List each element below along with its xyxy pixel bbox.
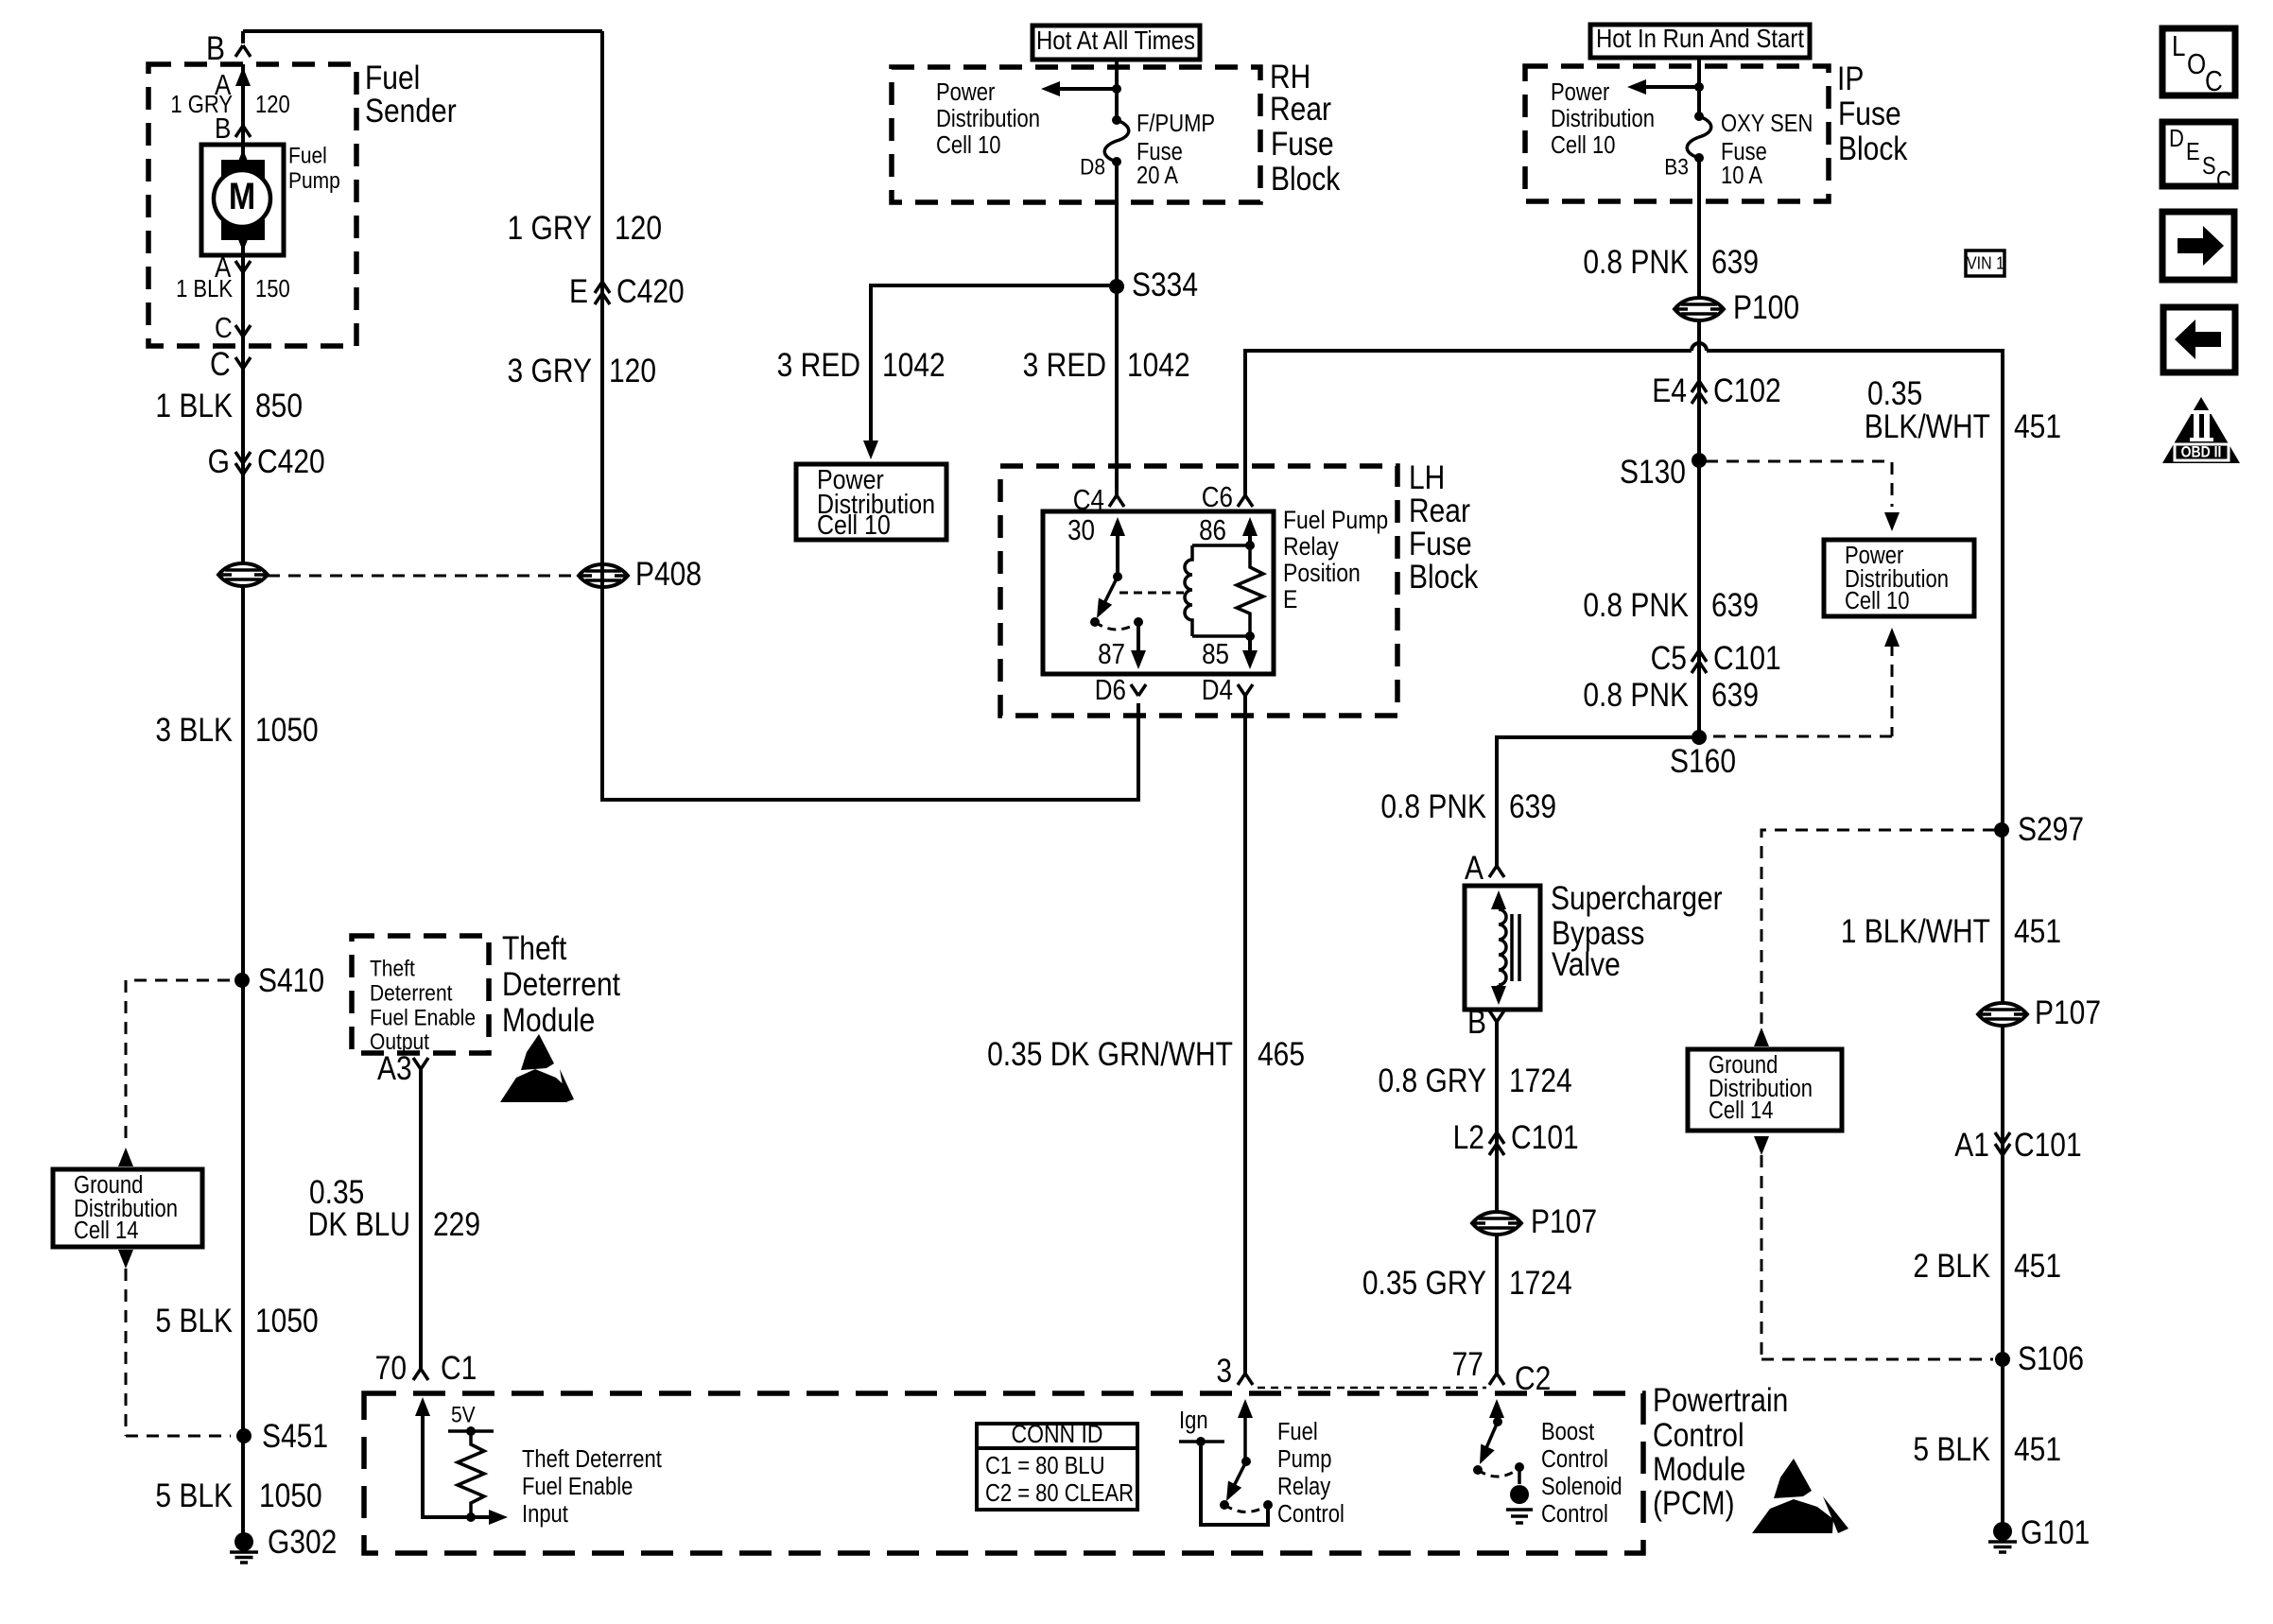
connector C5 C101 double chevron xyxy=(1692,650,1707,662)
svg-text:1042: 1042 xyxy=(882,347,946,384)
grommet P107 left xyxy=(1472,1212,1521,1235)
arrow into power distribution box xyxy=(863,441,878,459)
relay dashed actuator link xyxy=(1119,592,1184,595)
junction dot RH feed xyxy=(1112,84,1121,94)
svg-text:1050: 1050 xyxy=(255,712,319,749)
arrow down from box xyxy=(118,1250,133,1269)
fuse F/PUMP 20A xyxy=(1112,115,1121,125)
fuel pump relay box xyxy=(1043,511,1274,674)
dashed branch S410 to ground distribution xyxy=(126,980,230,1142)
RH rear fuse block dashed box xyxy=(892,67,1260,202)
dashed branch down to S106 xyxy=(1761,1155,1993,1359)
svg-text:Module: Module xyxy=(502,1002,595,1039)
svg-text:D6: D6 xyxy=(1095,674,1126,705)
connector E4 C102 double chevron xyxy=(1692,381,1707,392)
svg-text:1724: 1724 xyxy=(1509,1063,1572,1099)
connector B motor chevron xyxy=(235,126,251,137)
svg-text:A: A xyxy=(1465,850,1484,887)
svg-text:S334: S334 xyxy=(1132,267,1198,303)
svg-text:5 BLK: 5 BLK xyxy=(155,1477,233,1514)
svg-text:E: E xyxy=(1283,586,1297,614)
boost switch dashed arc xyxy=(1478,1468,1519,1477)
svg-text:Fuel: Fuel xyxy=(288,142,327,168)
svg-text:86: 86 xyxy=(1199,514,1226,545)
svg-text:B: B xyxy=(1467,1004,1486,1041)
ESD symbol PCM xyxy=(1774,1459,1812,1498)
svg-text:VIN 1: VIN 1 xyxy=(1967,252,2004,272)
svg-text:P107: P107 xyxy=(1531,1203,1597,1240)
ground G101 xyxy=(1988,1522,2017,1552)
power distribution arrow left RH xyxy=(1050,87,1117,91)
PCM dashed box xyxy=(364,1393,1643,1553)
wire from title into fuse xyxy=(1115,60,1119,120)
svg-text:Block: Block xyxy=(1271,161,1341,198)
svg-text:B: B xyxy=(206,30,225,67)
pin A arrow into sender xyxy=(235,67,251,86)
svg-text:CONN ID: CONN ID xyxy=(1011,1421,1102,1449)
dashed branch S297 to ground distribution right xyxy=(1761,830,1995,1024)
fuse OXY SEN 10A xyxy=(1694,112,1704,121)
wire S334 branch left and down xyxy=(871,285,1117,442)
wire hop over PNK wire xyxy=(1692,343,1707,351)
svg-text:Module: Module xyxy=(1653,1451,1745,1488)
svg-text:Cell 10: Cell 10 xyxy=(1845,588,1909,615)
relay pin 87 arrow down xyxy=(1136,622,1140,656)
svg-text:451: 451 xyxy=(2014,1431,2061,1468)
relay pin 30 arrow xyxy=(1110,517,1125,536)
5V supply bar xyxy=(448,1429,494,1433)
svg-text:G101: G101 xyxy=(2021,1514,2090,1551)
svg-text:Control: Control xyxy=(1541,1446,1608,1474)
svg-text:C6: C6 xyxy=(1202,481,1233,512)
svg-text:Cell 10: Cell 10 xyxy=(1551,132,1615,160)
OBD II icon xyxy=(2162,397,2240,463)
svg-text:0.8 PNK: 0.8 PNK xyxy=(1583,677,1689,714)
svg-text:Block: Block xyxy=(1409,559,1479,596)
supercharger bypass valve box xyxy=(1465,886,1540,1010)
relay pin 86 arrow xyxy=(1242,517,1258,536)
fuel pump motor M1 xyxy=(201,145,284,255)
svg-text:Hot At All Times: Hot At All Times xyxy=(1036,25,1195,55)
connector D6 chevron xyxy=(1131,684,1146,696)
svg-text:Fuse: Fuse xyxy=(1271,126,1334,163)
wire A3 down to C1 xyxy=(419,1069,423,1369)
svg-text:0.8 GRY: 0.8 GRY xyxy=(1379,1063,1486,1099)
wire B down to PCM C2 xyxy=(1495,1022,1499,1373)
left arrow icon box xyxy=(2163,307,2235,372)
grommet P107 right xyxy=(1978,1003,2027,1026)
connector C6 chevron xyxy=(1238,495,1253,507)
connector C chevron below box xyxy=(235,357,251,369)
dashed link to P408 xyxy=(268,575,579,578)
svg-text:639: 639 xyxy=(1711,677,1759,714)
svg-text:Fuse: Fuse xyxy=(1409,526,1472,562)
svg-text:Cell 14: Cell 14 xyxy=(74,1218,138,1245)
connector A1 C101 double chevron down xyxy=(1995,1132,2010,1144)
wire fuse to S334 to C4 xyxy=(1115,162,1119,495)
boost solenoid to ground xyxy=(1518,1467,1521,1484)
connector 70 C1 chevron xyxy=(413,1369,428,1380)
svg-text:C1: C1 xyxy=(441,1350,477,1387)
relay resistor xyxy=(1237,545,1263,636)
wire top horizontal B to right branch xyxy=(243,29,602,33)
splice S334 xyxy=(1109,279,1124,294)
connector A chevron xyxy=(1489,866,1504,877)
svg-text:0.35 GRY: 0.35 GRY xyxy=(1362,1265,1486,1302)
relay switch dashed arc xyxy=(1095,622,1138,630)
splice S160 xyxy=(1692,730,1707,745)
switch dashed arc xyxy=(1224,1505,1268,1512)
svg-text:120: 120 xyxy=(255,92,290,119)
wire fuse down to S160 xyxy=(1697,158,1701,737)
5V junction dot xyxy=(466,1426,476,1436)
ESD symbol theft module xyxy=(521,1034,554,1070)
svg-text:1050: 1050 xyxy=(259,1477,322,1514)
svg-text:639: 639 xyxy=(1509,788,1556,825)
svg-text:Power: Power xyxy=(936,79,995,107)
svg-text:120: 120 xyxy=(615,210,662,247)
svg-text:639: 639 xyxy=(1711,244,1759,281)
boost switch contact dot left xyxy=(1473,1465,1483,1475)
svg-text:Control: Control xyxy=(1277,1501,1345,1529)
svg-text:3: 3 xyxy=(1216,1353,1232,1390)
svg-text:Fuse: Fuse xyxy=(1838,95,1901,132)
svg-text:Position: Position xyxy=(1283,560,1361,588)
svg-text:OBD II: OBD II xyxy=(2181,443,2222,460)
svg-text:D: D xyxy=(2169,126,2184,153)
svg-text:(PCM): (PCM) xyxy=(1653,1485,1735,1522)
LOC icon box xyxy=(2162,28,2235,95)
svg-text:OXY SEN: OXY SEN xyxy=(1721,111,1813,138)
label VIN 1 box xyxy=(1966,251,2004,276)
svg-text:S130: S130 xyxy=(1620,454,1686,491)
svg-text:C: C xyxy=(2205,65,2223,96)
valve coil xyxy=(1499,909,1506,985)
splice S106 xyxy=(1995,1352,2010,1367)
svg-text:Rear: Rear xyxy=(1270,91,1331,128)
svg-text:451: 451 xyxy=(2014,1248,2061,1285)
svg-text:C2 = 80 CLEAR: C2 = 80 CLEAR xyxy=(985,1480,1134,1508)
svg-text:77: 77 xyxy=(1452,1346,1484,1383)
svg-text:C420: C420 xyxy=(616,273,685,310)
svg-text:Distribution: Distribution xyxy=(936,106,1040,133)
svg-text:Input: Input xyxy=(522,1501,568,1529)
svg-text:F/PUMP: F/PUMP xyxy=(1136,111,1215,138)
connector B top chevron xyxy=(235,45,251,57)
power distribution cell 10 box right xyxy=(1824,540,1974,616)
svg-text:Cell 10: Cell 10 xyxy=(936,132,1000,160)
wire from title into fuse xyxy=(1697,58,1701,116)
svg-text:229: 229 xyxy=(433,1206,480,1243)
theft deterrent input arrow xyxy=(415,1397,430,1416)
svg-text:C: C xyxy=(2216,167,2231,195)
title box Hot At All Times xyxy=(1032,26,1200,60)
svg-text:20 A: 20 A xyxy=(1136,163,1178,190)
svg-text:RH: RH xyxy=(1270,59,1310,95)
svg-text:Control: Control xyxy=(1541,1501,1608,1529)
svg-text:639: 639 xyxy=(1711,587,1759,624)
svg-text:C101: C101 xyxy=(1713,640,1781,677)
switch blade xyxy=(1230,1461,1246,1494)
power distribution cell 10 solid box left xyxy=(796,464,946,540)
svg-text:P100: P100 xyxy=(1733,289,1799,326)
splice S451 xyxy=(236,1428,252,1443)
svg-text:10 A: 10 A xyxy=(1721,163,1762,190)
svg-text:Powertrain: Powertrain xyxy=(1653,1382,1788,1419)
junction dot IP feed xyxy=(1694,82,1704,92)
svg-text:Theft Deterrent: Theft Deterrent xyxy=(522,1446,662,1474)
junction dot resistor bottom xyxy=(466,1512,476,1522)
svg-text:5 BLK: 5 BLK xyxy=(155,1303,233,1339)
svg-text:Power: Power xyxy=(1551,79,1609,107)
connector C4 chevron xyxy=(1109,495,1124,507)
svg-text:O: O xyxy=(2187,48,2206,79)
svg-text:E: E xyxy=(569,273,588,310)
svg-text:Cell 14: Cell 14 xyxy=(1709,1097,1773,1125)
title box Hot In Run And Start xyxy=(1590,25,1810,58)
valve plate bars xyxy=(1512,914,1519,981)
relay pin 85 arrow down xyxy=(1248,636,1252,656)
svg-text:0.8 PNK: 0.8 PNK xyxy=(1583,244,1689,281)
theft deterrent dashed box xyxy=(352,936,489,1053)
svg-text:Solenoid: Solenoid xyxy=(1541,1474,1622,1501)
connector G C420 double chevron xyxy=(235,452,251,463)
svg-text:Deterrent: Deterrent xyxy=(502,966,620,1003)
svg-text:D4: D4 xyxy=(1202,674,1233,705)
svg-text:B: B xyxy=(215,112,231,144)
boost switch contact dot right xyxy=(1515,1462,1524,1472)
svg-text:S297: S297 xyxy=(2018,811,2084,848)
CONN ID table xyxy=(977,1424,1137,1510)
svg-text:S160: S160 xyxy=(1670,743,1736,780)
svg-text:C420: C420 xyxy=(257,443,325,480)
ground G302 xyxy=(230,1532,258,1563)
svg-text:0.35 DK GRN/WHT: 0.35 DK GRN/WHT xyxy=(987,1036,1233,1073)
svg-text:A3: A3 xyxy=(377,1050,412,1087)
svg-text:E: E xyxy=(2186,139,2200,166)
svg-text:Fuel: Fuel xyxy=(1277,1419,1318,1446)
svg-text:Supercharger: Supercharger xyxy=(1551,880,1723,917)
svg-text:Boost: Boost xyxy=(1541,1419,1595,1446)
wire D4 down to PCM pin 3 xyxy=(1243,696,1247,1373)
wire right sender vertical 637 down and across to relay D6 xyxy=(602,31,1138,800)
dashed branch S130 to power distribution right xyxy=(1706,461,1892,507)
relay switch blade xyxy=(1102,577,1118,609)
svg-text:1 BLK: 1 BLK xyxy=(155,388,233,424)
svg-text:0.8 PNK: 0.8 PNK xyxy=(1583,587,1689,624)
svg-text:Relay: Relay xyxy=(1277,1474,1330,1501)
svg-text:Cell 10: Cell 10 xyxy=(817,509,891,540)
resistor theft deterrent pullup xyxy=(458,1431,484,1517)
svg-text:E4: E4 xyxy=(1652,372,1687,409)
power distribution arrow left IP xyxy=(1636,85,1699,89)
relay coil xyxy=(1185,545,1192,636)
connector B chevron xyxy=(1489,1011,1504,1022)
switch pivot dot xyxy=(1241,1457,1251,1466)
svg-text:D8: D8 xyxy=(1080,153,1105,180)
relay coil bottom rail xyxy=(1192,634,1250,638)
junction dot coil/resistor bottom xyxy=(1245,631,1255,641)
ground distribution cell 14 box right xyxy=(1688,1049,1842,1131)
svg-text:S410: S410 xyxy=(258,962,324,999)
wire left main vertical fuel sender down to G302 xyxy=(241,31,245,1542)
svg-text:Control: Control xyxy=(1653,1417,1744,1454)
valve bottom arrow xyxy=(1497,985,1501,994)
dashed branch down to S160 xyxy=(1706,644,1892,736)
LH rear fuse block dashed box xyxy=(1000,466,1397,716)
grommet P100 xyxy=(1674,298,1724,320)
wire S160 left to supercharger drop xyxy=(1497,737,1699,866)
boost control switch arrow xyxy=(1489,1399,1504,1418)
svg-text:Ign: Ign xyxy=(1179,1408,1208,1435)
grommet P408 left lens xyxy=(218,563,268,586)
IP fuse block dashed box xyxy=(1525,66,1829,201)
relay switch pivot dot xyxy=(1113,572,1122,581)
svg-text:L2: L2 xyxy=(1453,1119,1484,1156)
arrow up ground dist right xyxy=(1754,1028,1769,1046)
splice S410 xyxy=(234,973,250,988)
svg-text:70: 70 xyxy=(375,1350,407,1387)
splice S130 xyxy=(1692,453,1707,468)
boost switch blade xyxy=(1483,1422,1498,1457)
switch contact dot left xyxy=(1220,1500,1229,1510)
svg-text:3 RED: 3 RED xyxy=(1023,347,1106,384)
svg-text:465: 465 xyxy=(1258,1036,1305,1073)
svg-text:5V: 5V xyxy=(451,1401,476,1427)
svg-text:Theft: Theft xyxy=(370,955,415,981)
relay contact dot to pin 87 xyxy=(1134,617,1143,627)
svg-text:1042: 1042 xyxy=(1127,347,1190,384)
svg-text:IP: IP xyxy=(1837,60,1864,97)
connector L2 C101 double chevron xyxy=(1489,1132,1504,1144)
svg-text:Deterrent: Deterrent xyxy=(370,979,453,1006)
grommet P408 right lens xyxy=(579,564,628,587)
svg-text:3 GRY: 3 GRY xyxy=(508,353,592,389)
switch contact dot right xyxy=(1263,1500,1273,1510)
connector A3 chevron xyxy=(413,1058,428,1069)
svg-text:S106: S106 xyxy=(2018,1340,2084,1377)
svg-text:Fuel: Fuel xyxy=(365,60,420,96)
connector 77 C2 chevron xyxy=(1489,1373,1504,1385)
svg-text:P107: P107 xyxy=(2035,994,2101,1031)
svg-text:Fuel Enable: Fuel Enable xyxy=(522,1474,633,1501)
svg-text:120: 120 xyxy=(609,353,656,389)
arrow up into box from below xyxy=(1884,628,1900,647)
svg-text:150: 150 xyxy=(255,276,290,303)
relay switch contact dot 87 side xyxy=(1090,617,1100,627)
svg-text:0.8 PNK: 0.8 PNK xyxy=(1380,788,1486,825)
svg-text:A1: A1 xyxy=(1954,1127,1989,1164)
svg-text:S451: S451 xyxy=(262,1418,328,1455)
svg-text:5 BLK: 5 BLK xyxy=(1913,1431,1990,1468)
svg-text:0.35: 0.35 xyxy=(309,1174,364,1211)
svg-text:Sender: Sender xyxy=(365,93,457,130)
svg-text:1050: 1050 xyxy=(255,1303,319,1339)
junction dot coil/resistor top xyxy=(1245,541,1255,550)
svg-text:Rear: Rear xyxy=(1409,492,1470,529)
svg-text:Hot In Run And Start: Hot In Run And Start xyxy=(1596,23,1805,53)
svg-text:L: L xyxy=(2172,30,2185,61)
splice S297 xyxy=(1994,822,2009,838)
boost switch pivot dot xyxy=(1493,1417,1502,1426)
svg-text:1724: 1724 xyxy=(1509,1265,1572,1302)
svg-text:LH: LH xyxy=(1409,459,1445,496)
svg-text:C: C xyxy=(210,346,231,383)
svg-text:451: 451 xyxy=(2014,913,2061,950)
thin dashed link pin3 to C2 xyxy=(1258,1387,1486,1390)
valve top arrow xyxy=(1491,890,1506,909)
arrow down ground dist right xyxy=(1754,1136,1769,1155)
svg-text:Distribution: Distribution xyxy=(1551,106,1655,133)
svg-text:3 BLK: 3 BLK xyxy=(155,712,233,749)
svg-text:Valve: Valve xyxy=(1552,946,1621,983)
svg-text:Fuel Enable: Fuel Enable xyxy=(370,1004,476,1030)
svg-text:G: G xyxy=(208,443,230,480)
arrow down into box xyxy=(1884,512,1900,531)
wire Ign to switch contact xyxy=(1201,1442,1268,1525)
svg-text:1 BLK: 1 BLK xyxy=(176,276,233,303)
svg-text:DK BLU: DK BLU xyxy=(308,1206,410,1243)
pin C chevron at box edge xyxy=(235,325,251,337)
svg-text:2 BLK: 2 BLK xyxy=(1913,1248,1990,1285)
right arrow icon box xyxy=(2162,212,2234,280)
svg-text:C101: C101 xyxy=(2014,1127,2082,1164)
svg-text:Fuel Pump: Fuel Pump xyxy=(1283,507,1388,535)
svg-text:Pump: Pump xyxy=(1277,1446,1331,1474)
svg-text:30: 30 xyxy=(1067,514,1095,545)
arrow up to Ground Distribution Cell 14 xyxy=(118,1148,133,1166)
svg-text:Theft: Theft xyxy=(502,930,566,967)
svg-text:C: C xyxy=(215,312,233,343)
svg-text:C5: C5 xyxy=(1651,640,1687,677)
connector A bottom chevron xyxy=(235,261,251,272)
svg-text:3 RED: 3 RED xyxy=(777,347,860,384)
svg-text:C102: C102 xyxy=(1713,372,1781,409)
connector pin 3 chevron xyxy=(1238,1373,1253,1385)
connector E C420 double chevron xyxy=(595,282,610,293)
svg-text:0.35: 0.35 xyxy=(1867,375,1922,412)
wire C6 up and across to right column xyxy=(1245,351,2003,1529)
svg-text:85: 85 xyxy=(1202,638,1229,669)
svg-text:Relay: Relay xyxy=(1283,533,1339,561)
svg-text:C1 = 80 BLU: C1 = 80 BLU xyxy=(985,1453,1105,1480)
svg-text:451: 451 xyxy=(2014,408,2061,445)
svg-text:1 BLK/WHT: 1 BLK/WHT xyxy=(1841,913,1990,950)
DESC icon box xyxy=(2162,122,2235,186)
svg-text:S: S xyxy=(2202,153,2216,181)
dashed branch down to S451 xyxy=(126,1269,231,1436)
svg-text:Pump: Pump xyxy=(288,167,340,194)
svg-text:P408: P408 xyxy=(635,556,702,593)
fuel pump relay control switch arrow xyxy=(1238,1399,1253,1418)
ground distribution cell 14 box left xyxy=(53,1169,202,1247)
svg-text:C2: C2 xyxy=(1515,1360,1551,1397)
svg-text:B3: B3 xyxy=(1664,153,1689,180)
connector D4 chevron xyxy=(1238,684,1253,696)
svg-text:C101: C101 xyxy=(1511,1119,1579,1156)
svg-text:87: 87 xyxy=(1098,638,1125,669)
svg-text:BLK/WHT: BLK/WHT xyxy=(1865,408,1990,445)
svg-text:Block: Block xyxy=(1838,130,1908,167)
svg-text:G302: G302 xyxy=(268,1524,337,1561)
svg-text:1 GRY: 1 GRY xyxy=(508,210,592,247)
svg-text:M: M xyxy=(229,175,255,216)
relay coil top rail xyxy=(1192,544,1250,547)
svg-text:850: 850 xyxy=(255,388,303,424)
fuel sender dashed box xyxy=(148,64,356,346)
